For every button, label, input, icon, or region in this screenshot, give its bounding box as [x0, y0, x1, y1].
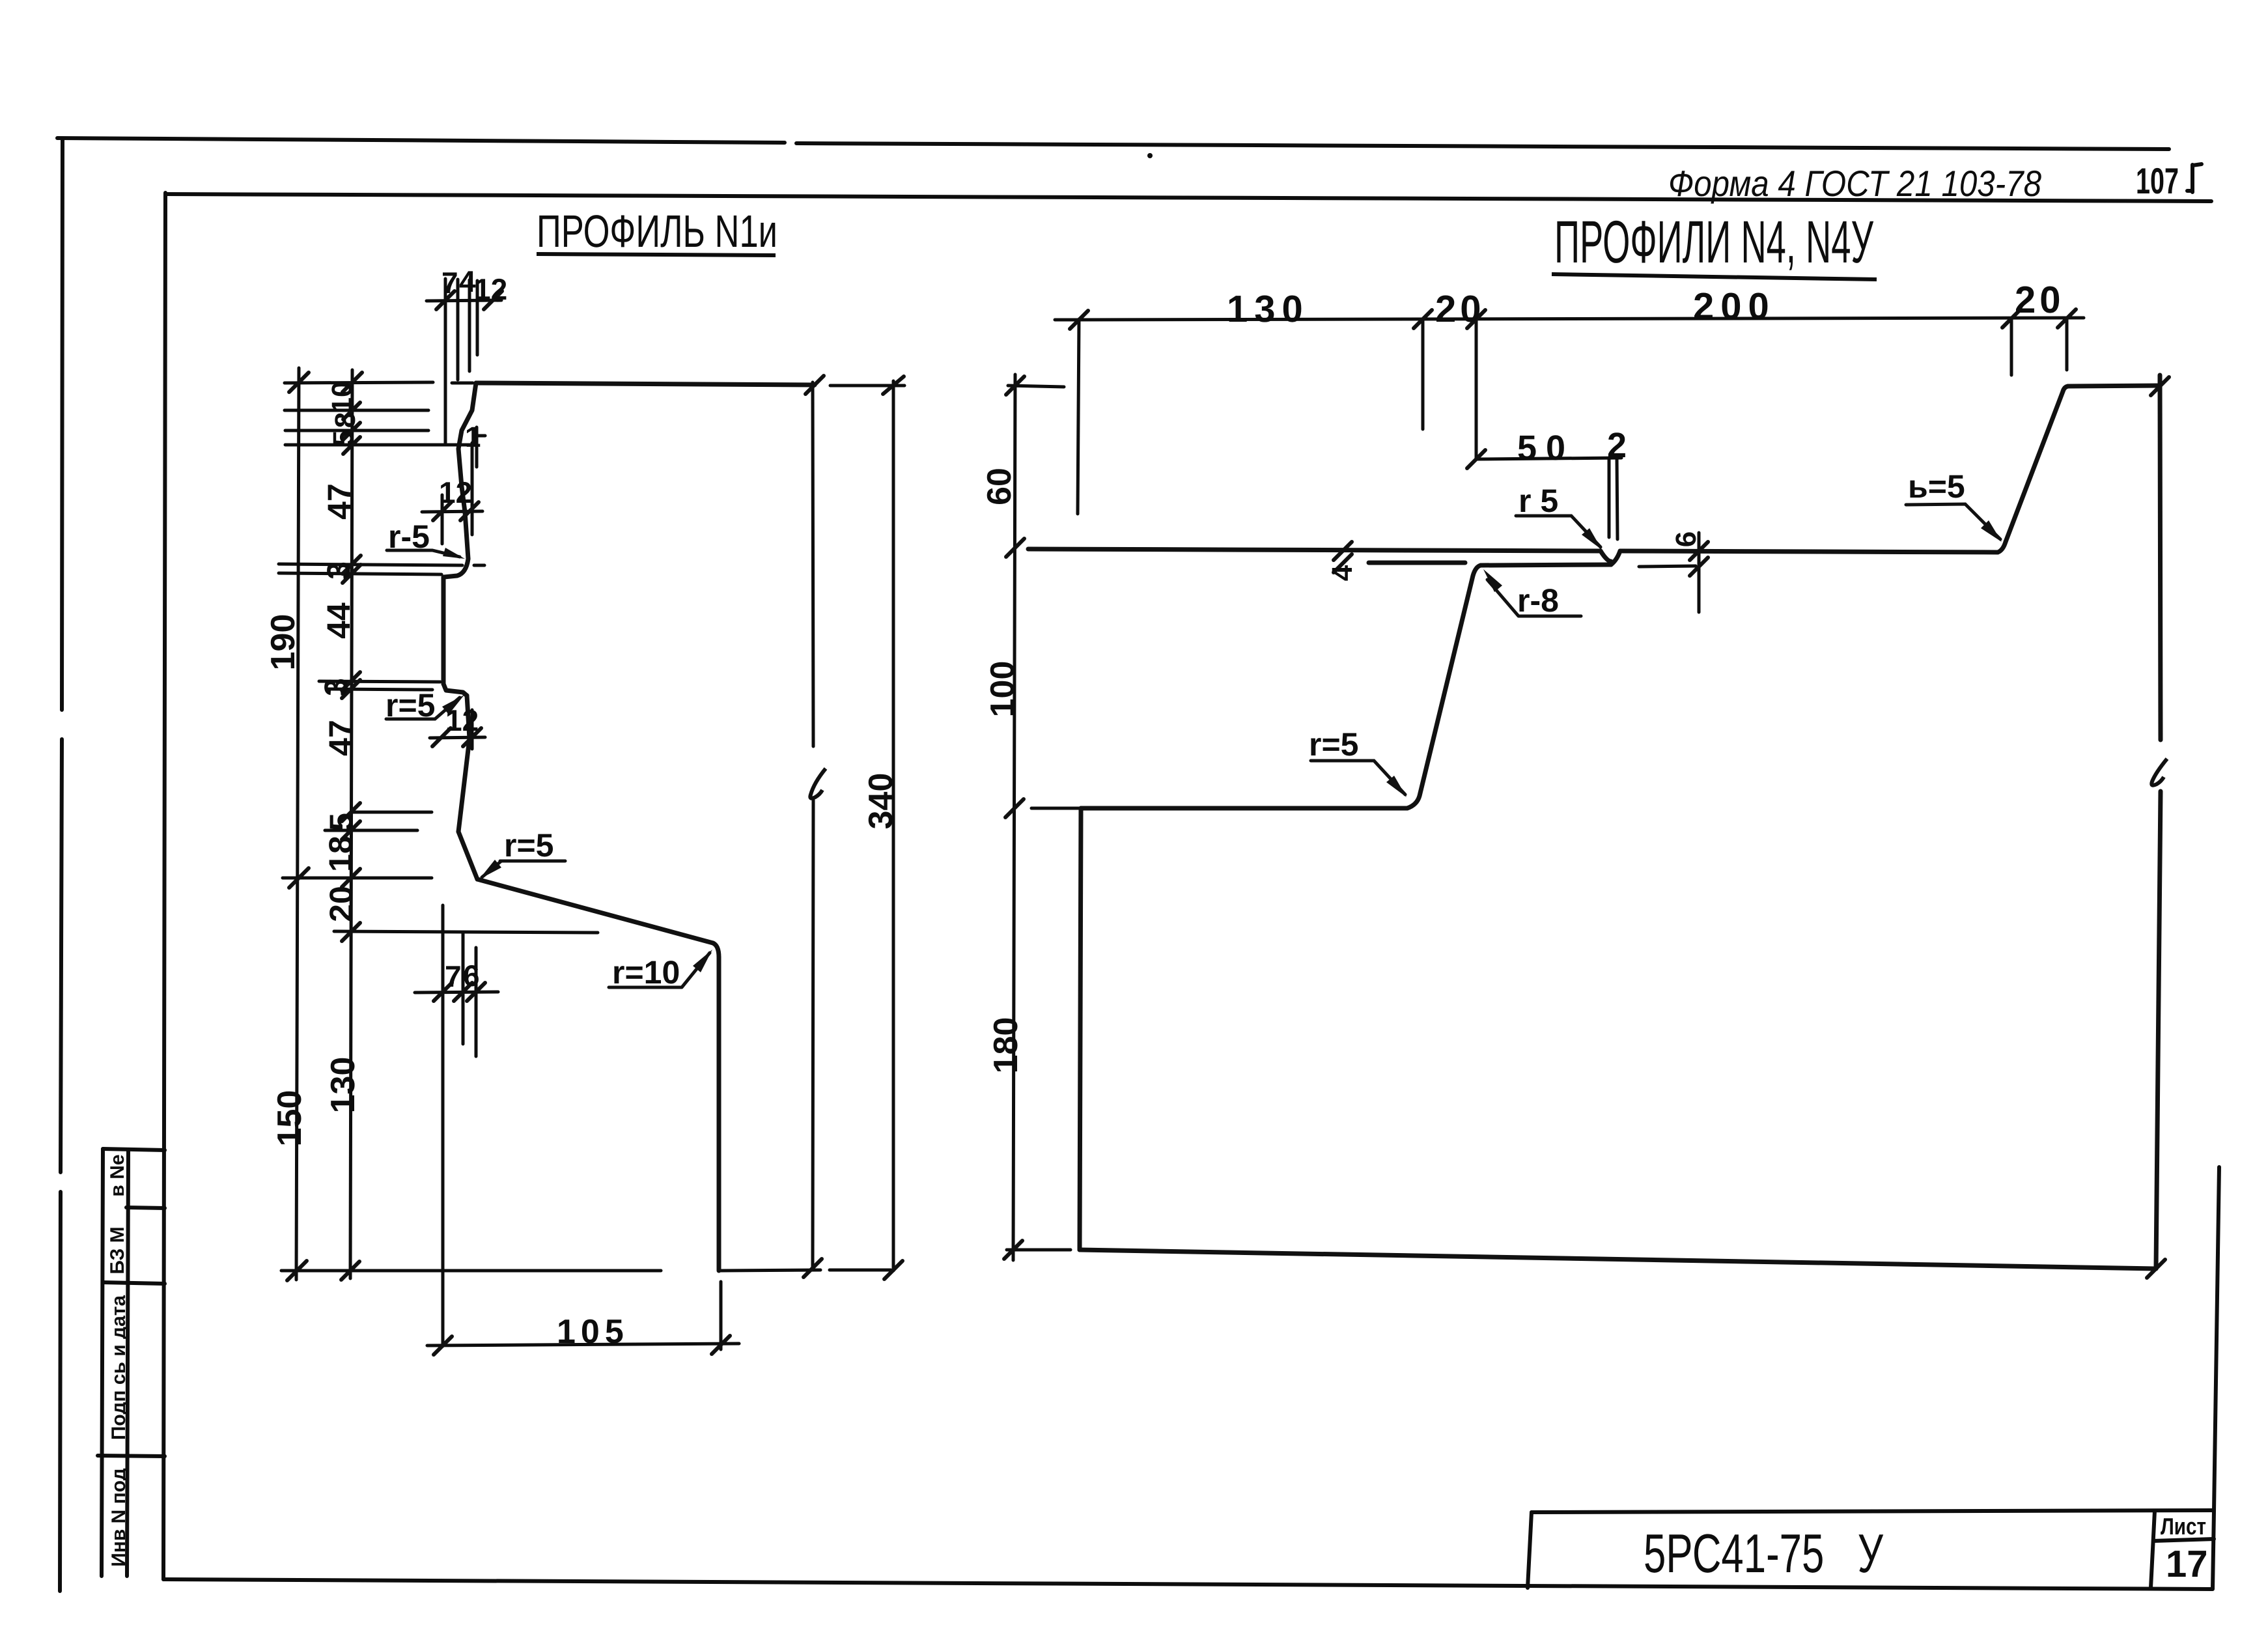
- tick chain2 y683: [343, 437, 360, 454]
- svg-text:105: 105: [557, 1313, 629, 1351]
- svg-text:6: 6: [463, 959, 480, 993]
- svg-text:100: 100: [984, 661, 1022, 718]
- extension x2267: [1475, 319, 1478, 458]
- dim 1 tick: [473, 434, 485, 438]
- extension at y1241: [1031, 807, 1079, 810]
- svg-text:130: 130: [324, 1057, 362, 1114]
- left vertical edge: [1080, 808, 1081, 1250]
- extension x2185: [1421, 319, 1425, 429]
- notch1 12 right extension: [471, 443, 474, 535]
- bottom 7-6 tick line y1523: [415, 992, 498, 993]
- svg-text:7: 7: [445, 959, 462, 993]
- svg-text:5: 5: [328, 430, 359, 446]
- svg-text:12: 12: [439, 475, 472, 509]
- svg-text:2: 2: [1607, 426, 1627, 465]
- ledge level y868: [1481, 565, 1611, 565]
- svg-text:10: 10: [326, 382, 358, 414]
- steep slant with fillets: [1407, 565, 1481, 808]
- svg-text:44: 44: [320, 602, 357, 639]
- tick top edge right end: [805, 376, 824, 394]
- 6 dim vertical x2609: [1698, 533, 1701, 612]
- stamp box line 4: [98, 1456, 165, 1456]
- right b5 underline leader: [1906, 504, 2000, 539]
- profile lower-left edge x680: [441, 905, 445, 1346]
- svg-text:ПРОФИЛЬ N1и: ПРОФИЛЬ N1и: [537, 206, 777, 257]
- stamp box line 1: [103, 1149, 165, 1150]
- right top dim tick x1657: [1070, 311, 1088, 329]
- bottom extension y1919: [1007, 1248, 1071, 1252]
- stamp box line 2: [126, 1207, 165, 1208]
- arrowhead right b5: [1981, 520, 2002, 542]
- svg-text:50: 50: [1517, 429, 1575, 468]
- stamp box line 3: [103, 1282, 165, 1284]
- svg-text:150: 150: [271, 1090, 309, 1147]
- extension y630: [285, 409, 428, 412]
- bottom 7-6 extension x731: [475, 948, 478, 1056]
- svg-text:6: 6: [1670, 531, 1702, 547]
- tick 76 x680: [434, 983, 452, 1001]
- extension y1348: [283, 877, 432, 880]
- svg-text:БЗ М: БЗ М: [107, 1226, 128, 1274]
- profile edge notch2 to corner: [458, 696, 469, 832]
- top small dim extension x684: [444, 279, 447, 443]
- right top dim tick x3174: [2058, 309, 2076, 328]
- arrowhead r-5 n1: [443, 548, 465, 559]
- inner frame left line: [163, 193, 165, 1579]
- right l line: [2156, 375, 2161, 1269]
- tick 340 top: [883, 376, 904, 394]
- right top dim tick x2267: [1467, 310, 1485, 328]
- tick l line bottom: [804, 1259, 822, 1277]
- extension y661: [285, 429, 428, 432]
- extension x3089: [2010, 318, 2013, 375]
- variant surface B left: [1369, 561, 1465, 565]
- extension x3174: [2065, 318, 2069, 370]
- tick 340 bottom: [884, 1261, 903, 1279]
- mid horizontal y1241: [1081, 806, 1407, 811]
- svg-text:4: 4: [1326, 565, 1358, 581]
- svg-text:r-5: r-5: [388, 518, 430, 555]
- profile left edge upper with jog: [458, 383, 476, 559]
- extension y881: [279, 573, 441, 574]
- bottom edge: [1080, 1250, 2156, 1269]
- 50 dim tick left: [1467, 450, 1485, 468]
- notch1 right dash: [474, 564, 484, 567]
- right chain tick y591: [1006, 376, 1024, 395]
- top dim line y490: [1055, 318, 2084, 320]
- svg-text:r=10: r=10: [612, 954, 680, 991]
- title block top line: [1532, 1510, 2212, 1512]
- svg-text:20: 20: [323, 886, 359, 922]
- stamp column divider: [127, 1149, 128, 1576]
- tick chain1 y1951: [287, 1261, 307, 1280]
- svg-text:190: 190: [264, 614, 302, 671]
- arrowhead r=10: [693, 950, 712, 972]
- svg-text:в Nе: в Nе: [107, 1154, 128, 1196]
- svg-text:5РС41-75 У: 5РС41-75 У: [1644, 1523, 1883, 1584]
- extension x1655: [1078, 319, 1079, 514]
- svg-text:Форма 4 ГОСТ 21 103-78: Форма 4 ГОСТ 21 103-78: [1668, 163, 2041, 204]
- tick top dims x757: [484, 291, 502, 309]
- svg-text:3: 3: [320, 561, 357, 580]
- groove at surface: [1601, 551, 1611, 561]
- extension y867: [279, 564, 462, 565]
- tick 76 x731: [467, 983, 485, 1001]
- top plateau: [2068, 386, 2160, 386]
- outer border top line: [57, 138, 2169, 149]
- tick top dims x684: [436, 291, 455, 309]
- extension top y587: [285, 382, 433, 383]
- svg-text:Подп сь и дата: Подп сь и дата: [108, 1295, 130, 1441]
- top small dim extension x733: [476, 281, 479, 355]
- svg-text:60: 60: [981, 468, 1018, 505]
- svg-text:130: 130: [1227, 288, 1309, 330]
- svg-text:r=5: r=5: [1309, 726, 1358, 763]
- extension y1275: [325, 829, 417, 832]
- 340 dim line: [892, 381, 895, 1271]
- l cut line right edge: [813, 382, 813, 1268]
- svg-text:r 5: r 5: [1519, 483, 1558, 519]
- right l line bottom tick: [2147, 1260, 2165, 1278]
- tick 105 left: [434, 1336, 452, 1355]
- surface right level: [1620, 551, 1998, 552]
- tick chain1 top: [289, 373, 309, 392]
- tick chain2 y867: [343, 556, 361, 574]
- top small dim extension x721: [468, 280, 471, 371]
- 4 dim tick lower: [1334, 554, 1352, 572]
- right chain tick y1241: [1005, 799, 1024, 817]
- 6 dim tick lower: [1690, 557, 1708, 576]
- bottom extension to 340 line: [830, 1269, 891, 1272]
- svg-text:5: 5: [323, 813, 359, 831]
- dim chain line small dims: [350, 370, 352, 1278]
- 2 dim double vertical b: [1617, 458, 1617, 539]
- svg-text:340: 340: [862, 773, 900, 830]
- notch1 cusp return: [444, 559, 468, 577]
- top extension y591: [1008, 386, 1064, 387]
- arrowhead r=5 n2: [442, 695, 464, 714]
- r-5 n1 underline leader: [387, 550, 460, 557]
- inner frame bottom line: [163, 1579, 2212, 1589]
- tick chain2 y1247: [342, 803, 360, 821]
- stamp column left edge: [102, 1149, 103, 1576]
- svg-text:1: 1: [465, 421, 481, 453]
- ledge fillet up to surface: [1611, 551, 1620, 565]
- tick chain2 y1430: [342, 923, 360, 941]
- svg-text:r-8: r-8: [1517, 582, 1559, 619]
- svg-text:ПРОФИЛИ N4, N4У: ПРОФИЛИ N4, N4У: [1554, 209, 1873, 275]
- svg-text:18: 18: [322, 836, 359, 872]
- right r5 mid underline leader: [1516, 516, 1601, 547]
- svg-text:12: 12: [474, 272, 507, 306]
- top small dim tick line y461: [427, 300, 501, 301]
- svg-text:8: 8: [329, 412, 361, 428]
- arrowhead right r-8: [1483, 569, 1502, 592]
- profile channel vertical: [441, 577, 446, 684]
- svg-text:200: 200: [1693, 285, 1776, 328]
- tick chain2 top: [343, 373, 362, 392]
- right r-8 underline leader: [1487, 580, 1581, 616]
- title block list divider: [2153, 1539, 2214, 1541]
- svg-text:7: 7: [441, 266, 458, 300]
- right top dim tick x2185: [1414, 310, 1432, 328]
- 50 dim line y704: [1476, 458, 1621, 459]
- right chain tick y840: [1006, 539, 1024, 557]
- 6 dim tick upper: [1690, 542, 1708, 560]
- arrowhead r=5 n3: [479, 860, 501, 879]
- tick chain2 y881: [343, 565, 361, 583]
- tick chain2 y1058: [342, 680, 360, 698]
- svg-text:Инв N под: Инв N под: [108, 1468, 130, 1567]
- svg-text:12: 12: [445, 703, 479, 737]
- extension y683: [285, 444, 474, 447]
- right slope fillet bottom: [1998, 542, 2006, 552]
- 105 dim line: [427, 1344, 739, 1346]
- svg-text:17: 17: [2166, 1543, 2208, 1585]
- tick notch2 x725: [463, 728, 481, 746]
- right slope top fillet: [2063, 386, 2068, 391]
- outer border left line: [60, 139, 63, 1591]
- top extension to 340 line: [830, 384, 904, 388]
- left chain line: [1013, 374, 1015, 1260]
- surface A left level: [1028, 549, 1601, 551]
- profile right edge bottom: [717, 957, 721, 1271]
- 2 dim double vertical a: [1608, 458, 1611, 537]
- profile top edge: [476, 383, 815, 385]
- dim 1 extension x732: [475, 427, 479, 467]
- script l left: [810, 769, 826, 798]
- corner to r5 low corner: [458, 832, 477, 879]
- tick chain2 y1046: [342, 672, 360, 690]
- svg-text:20: 20: [2015, 279, 2065, 321]
- notch1 12 left extension: [441, 495, 444, 544]
- tick notch1 x721: [460, 502, 479, 520]
- tick notch2 x678: [432, 728, 451, 746]
- extension y1058: [327, 689, 432, 690]
- inner frame top line: [165, 194, 2211, 201]
- 105 dim right extension: [720, 1282, 723, 1349]
- tick chain2 y1275: [342, 821, 360, 839]
- right title underline: [1552, 274, 1877, 279]
- svg-text:ь=5: ь=5: [1908, 468, 1965, 505]
- tick chain2 y1951: [341, 1262, 359, 1280]
- 4 dim tick upper: [1334, 542, 1352, 560]
- bottom edge right segment: [721, 1270, 820, 1271]
- r=5 n2 leader: [386, 698, 460, 719]
- tick 105 right: [712, 1336, 730, 1354]
- script l right: [2151, 759, 2167, 785]
- right top dim tick x3089: [2002, 309, 2021, 328]
- svg-text:20: 20: [1435, 288, 1485, 330]
- r10 rounded corner: [713, 943, 719, 957]
- extension y1430 (20 level): [334, 931, 598, 933]
- bottom 7-6 extension x711: [462, 933, 465, 1044]
- top small dim extension x703: [456, 279, 460, 380]
- notch2 12 right extension: [471, 710, 474, 749]
- arrowhead right r=5 low: [1386, 776, 1407, 797]
- right slope: [2006, 391, 2063, 542]
- dim chain line 190-150: [296, 368, 299, 1280]
- r=10 underline leader: [609, 953, 710, 987]
- svg-text:3: 3: [318, 678, 354, 696]
- right r=5 low underline leader: [1311, 761, 1405, 795]
- page bracket mark top right: [2187, 164, 2202, 192]
- extension top short y588: [452, 382, 473, 385]
- svg-text:r=5: r=5: [504, 827, 553, 864]
- long slant to r10: [477, 879, 713, 943]
- tick 76 x711: [454, 983, 472, 1001]
- extension y1247: [352, 811, 432, 814]
- arrowhead right r5 mid: [1582, 528, 1602, 550]
- svg-text:47: 47: [321, 483, 357, 520]
- notch2 12 tick line y1132: [430, 737, 485, 738]
- svg-text:107: 107: [2136, 160, 2179, 201]
- notch2 out to cusp: [443, 684, 467, 696]
- tick chain2 y661: [343, 423, 360, 440]
- svg-text:Лист: Лист: [2161, 1513, 2206, 1540]
- 6 dim extension y869: [1639, 566, 1696, 567]
- tick notch1 x679: [433, 502, 451, 520]
- svg-text:47: 47: [322, 720, 359, 756]
- svg-text:180: 180: [987, 1017, 1025, 1074]
- bottom edge and extension y1951: [281, 1269, 661, 1273]
- tick chain2 y1348: [342, 869, 360, 887]
- tick chain1 y1348: [289, 868, 309, 888]
- extension y1046: [319, 681, 440, 682]
- tick chain2 y630: [343, 402, 360, 419]
- left title underline: [537, 254, 776, 255]
- inner frame right line (lower part only): [2213, 1167, 2219, 1589]
- title block left edge: [1528, 1512, 1532, 1588]
- svg-text:r=5: r=5: [385, 687, 435, 724]
- r=5 n3 underline leader: [482, 861, 565, 877]
- title block list box left edge: [2151, 1511, 2155, 1588]
- scan speck: [1147, 153, 1153, 158]
- right chain tick y1919: [1004, 1241, 1022, 1259]
- notch1 12 tick line y785: [422, 511, 483, 512]
- plateau right tick: [2151, 377, 2169, 395]
